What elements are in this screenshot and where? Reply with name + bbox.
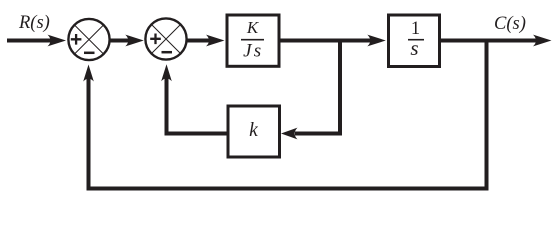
wire summing junction 2 to block K/Js: [187, 39, 212, 43]
summing junction 2 X diagonals: [152, 25, 181, 54]
wire inner feedback: down from pickoff and left into block k: [295, 39, 340, 134]
summing junction 1 plus sign: [71, 34, 82, 45]
svg-text:C(s): C(s): [494, 14, 526, 34]
block k (rate feedback): [228, 106, 280, 157]
svg-text:k: k: [249, 120, 258, 141]
arrowhead into summing junction 2: [125, 35, 144, 47]
wire summing junction 1 to summing junction 2: [110, 39, 131, 43]
wire input R(s) to summing junction 1: [7, 39, 52, 43]
svg-text:s: s: [410, 36, 418, 60]
arrowhead into block k: [281, 128, 298, 140]
summing junction 1 minus sign: [84, 52, 95, 55]
arrowhead up into summing junction 2: [161, 64, 172, 81]
summing junction 2 minus sign: [162, 51, 173, 54]
svg-text:R(s): R(s): [18, 13, 50, 33]
arrowhead output C(s): [533, 35, 552, 47]
wire block k output: left then up into summing junction 2: [167, 75, 229, 134]
summing junction 1 X diagonals: [75, 25, 104, 54]
svg-text:Js: Js: [243, 40, 263, 61]
wire block K/Js to block 1/s: [280, 39, 374, 43]
arrowhead into block 1/s: [367, 35, 386, 47]
summing junction 1 circle: [68, 19, 109, 60]
arrowhead up into summing junction 1: [83, 65, 94, 82]
block 1/s (integrator): [389, 15, 440, 67]
svg-text:K: K: [246, 18, 260, 37]
arrowhead into block K/Js: [206, 35, 225, 47]
wire outer feedback: down from output, across bottom, up into summing junction 1: [89, 39, 487, 189]
summing junction 2 circle: [145, 18, 186, 59]
fraction bar K/Js: [241, 39, 264, 41]
arrowhead into summing junction 1: [48, 35, 67, 47]
block K/Js (plant): [227, 15, 279, 66]
wire block 1/s to output C(s): [440, 39, 538, 43]
fraction bar 1/s: [408, 39, 424, 41]
summing junction 2 plus sign: [150, 34, 161, 45]
